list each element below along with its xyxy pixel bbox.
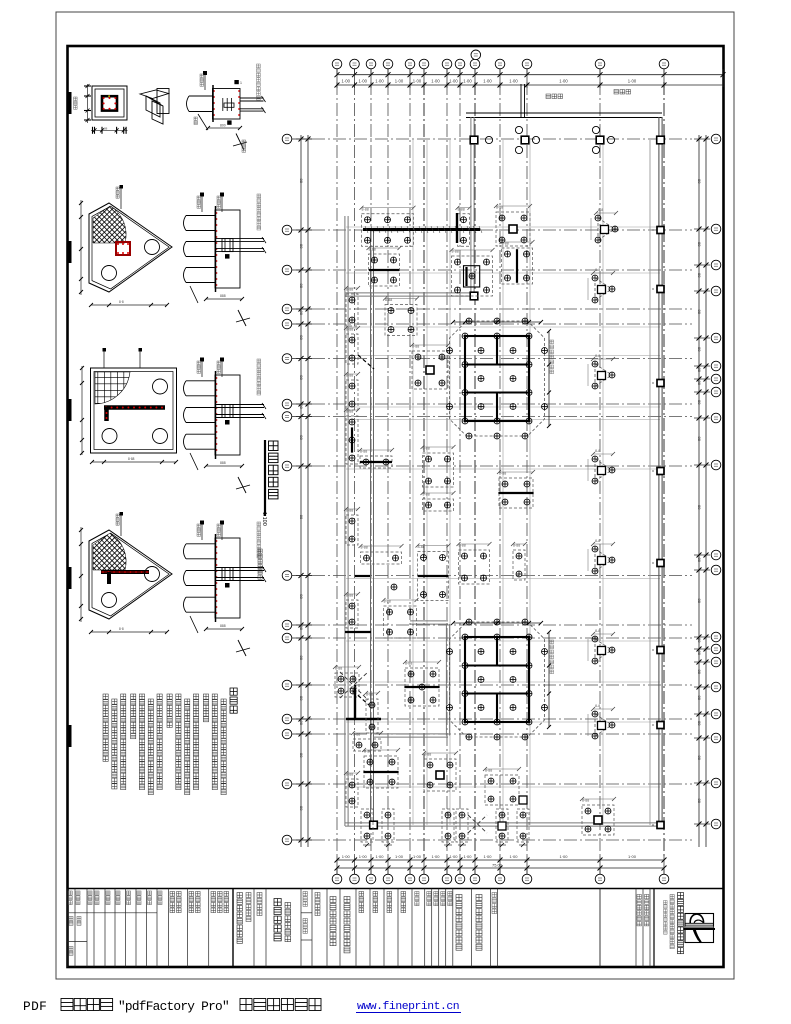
svg-text:88: 88 [299, 244, 304, 249]
svg-text:88: 88 [299, 311, 304, 316]
svg-text:8-8: 8-8 [595, 539, 600, 543]
svg-text:88: 88 [697, 670, 702, 675]
svg-text:1·00: 1·00 [628, 78, 637, 83]
svg-text:88: 88 [299, 753, 304, 758]
svg-text:888: 888 [220, 294, 226, 298]
svg-text:1·00: 1·00 [449, 854, 458, 859]
svg-text:1·00: 1·00 [483, 78, 492, 83]
svg-text:1·00: 1·00 [483, 854, 492, 859]
svg-text:88: 88 [697, 368, 702, 373]
svg-text:88: 88 [299, 696, 304, 701]
svg-text:1·00: 1·00 [342, 854, 351, 859]
svg-text:88: 88 [697, 799, 702, 804]
svg-text:1·00: 1·00 [342, 78, 351, 83]
svg-text:8-8: 8-8 [595, 629, 600, 633]
svg-text:www.fineprint.cn: www.fineprint.cn [357, 1001, 459, 1013]
svg-text:800: 800 [220, 124, 226, 128]
svg-text:888: 888 [220, 624, 226, 628]
svg-text:1·00: 1·00 [359, 854, 368, 859]
svg-text:1·00: 1·00 [395, 854, 404, 859]
svg-text:88: 88 [299, 435, 304, 440]
svg-text:88: 88 [697, 310, 702, 315]
svg-text:1·00: 1·00 [463, 854, 472, 859]
svg-text:88: 88 [697, 756, 702, 761]
svg-text:8·88: 8·88 [128, 457, 135, 461]
svg-text:1·00: 1·00 [449, 78, 458, 83]
svg-text:88: 88 [299, 806, 304, 811]
svg-text:8-8: 8-8 [595, 268, 600, 272]
svg-text:88: 88 [299, 626, 304, 631]
svg-text:75.00: 75.00 [492, 863, 503, 868]
svg-text:88: 88 [697, 381, 702, 386]
svg-text:88: 88 [299, 284, 304, 289]
svg-text:8-8: 8-8 [595, 354, 600, 358]
svg-text:88: 88 [697, 505, 702, 510]
svg-text:88: 88 [697, 400, 702, 405]
svg-text:1·00: 1·00 [395, 78, 404, 83]
svg-text:8-8: 8-8 [595, 449, 600, 453]
svg-text:88: 88 [299, 594, 304, 599]
svg-text:88: 88 [697, 599, 702, 604]
svg-text:8·8: 8·8 [119, 300, 124, 304]
svg-text:88: 88 [697, 696, 702, 701]
svg-text:88: 88 [299, 335, 304, 340]
svg-text:88: 88 [299, 721, 304, 726]
svg-text:1·00: 1·00 [375, 78, 384, 83]
svg-text:88: 88 [697, 651, 702, 656]
svg-text:1:100: 1:100 [261, 512, 267, 526]
svg-text:8·8: 8·8 [119, 627, 124, 631]
svg-text:88: 88 [697, 721, 702, 726]
svg-text:1·00: 1·00 [509, 78, 518, 83]
svg-text:1·00: 1·00 [413, 854, 422, 859]
svg-text:8-8: 8-8 [598, 208, 603, 212]
svg-text:88: 88 [697, 558, 702, 563]
svg-text:88: 88 [299, 656, 304, 661]
svg-text:1·00: 1·00 [413, 78, 422, 83]
svg-text:1·00: 1·00 [628, 854, 637, 859]
svg-text:88: 88 [299, 375, 304, 380]
svg-text:88: 88 [697, 437, 702, 442]
svg-text:1·00: 1·00 [463, 78, 472, 83]
svg-text:88: 88 [697, 347, 702, 352]
svg-text:1·00: 1·00 [509, 854, 518, 859]
svg-text:1·00: 1·00 [431, 78, 440, 83]
svg-text:1·00: 1·00 [559, 854, 568, 859]
svg-text:1: 1 [240, 81, 242, 85]
svg-text:1·00: 1·00 [431, 854, 440, 859]
svg-text:88: 88 [697, 638, 702, 643]
svg-text:88: 88 [299, 515, 304, 520]
svg-text:PDF: PDF [23, 999, 47, 1014]
svg-text:88: 88 [697, 242, 702, 247]
svg-text:88: 88 [104, 127, 108, 131]
svg-text:888: 888 [220, 461, 226, 465]
svg-text:8-8: 8-8 [595, 704, 600, 708]
svg-text:″pdfFactory Pro″: ″pdfFactory Pro″ [118, 999, 229, 1014]
svg-text:88: 88 [299, 404, 304, 409]
svg-text:1·00: 1·00 [559, 78, 568, 83]
svg-text:1·00: 1·00 [359, 78, 368, 83]
svg-text:88: 88 [697, 273, 702, 278]
svg-text:88: 88 [299, 179, 304, 184]
svg-text:88: 88 [697, 179, 702, 184]
svg-text:1·00: 1·00 [375, 854, 384, 859]
